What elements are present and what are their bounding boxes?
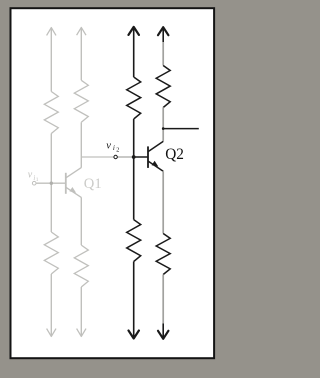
svg-text:2: 2 bbox=[116, 147, 119, 154]
wire (gray bias rail middle, Q1) bbox=[50, 134, 52, 233]
node (junction of output tap on collector rail of Q2) bbox=[162, 127, 165, 130]
terminal v_i2 (black input terminal circle) bbox=[114, 155, 117, 158]
svg-text:1: 1 bbox=[36, 177, 39, 183]
VEE arrow (black, bias rail of Q2) bbox=[129, 331, 139, 339]
resistor (black, lower bias resistor of Q2) bbox=[127, 220, 141, 262]
VCC arrow (black, collector rail of Q2) bbox=[158, 27, 168, 35]
resistor (black, collector resistor of Q2) bbox=[156, 66, 170, 108]
wire (gray, collector rail down to Q1 collector) bbox=[80, 122, 82, 167]
wire (medium gray emitter rail lower, Q2) bbox=[162, 275, 164, 324]
resistor (gray, upper bias resistor of Q1) bbox=[44, 92, 58, 134]
VCC arrow (gray, bias rail of Q1) bbox=[47, 28, 56, 36]
label v_i2 bbox=[106, 140, 119, 153]
label v_i1 bbox=[28, 170, 39, 184]
svg-text:v: v bbox=[28, 170, 33, 181]
wire (black bias rail middle, Q2) bbox=[133, 119, 135, 220]
svg-text:Q1: Q1 bbox=[84, 176, 102, 192]
VEE arrow (gray, bias rail of Q1) bbox=[47, 329, 56, 337]
VCC arrow (gray, collector rail of Q1) bbox=[77, 27, 86, 35]
wire (black shaft above VEE arrow, emitter rail of Q2) bbox=[162, 324, 164, 339]
VEE arrow (black, emitter rail of Q2) bbox=[158, 331, 168, 339]
wire (gray emitter rail, Q1) bbox=[80, 197, 82, 245]
node (gray junction dot, base of Q1 on bias rail) bbox=[50, 182, 53, 185]
wire (gray bias rail bottom, Q1) bbox=[50, 274, 52, 336]
wire (gray base wire of Q1) bbox=[36, 182, 66, 184]
wire (medium gray emitter rail, Q2) bbox=[162, 171, 164, 233]
wire (gray emitter rail bottom, Q1) bbox=[80, 287, 82, 336]
transistor Q2 (black NPN) bbox=[148, 141, 163, 171]
VEE arrow (gray, emitter rail of Q1) bbox=[77, 329, 86, 337]
resistor (gray, collector resistor of Q1) bbox=[74, 80, 88, 122]
terminal v_i1 (gray input terminal circle) bbox=[32, 181, 36, 185]
wire (gray collector output tap of Q1) bbox=[81, 156, 114, 158]
svg-text:Q2: Q2 bbox=[165, 146, 184, 163]
wire (black bias rail bottom, Q2) bbox=[133, 262, 135, 339]
wire (gray segment between v_i2 terminal and bias-rail junction) bbox=[117, 156, 133, 158]
wire (black bias rail top, Q2) bbox=[133, 27, 135, 77]
resistor (gray, emitter resistor of Q1) bbox=[74, 245, 88, 287]
wire (medium gray, collector rail from resistor down to Q2 collector) bbox=[162, 107, 164, 141]
wire (gray collector rail top, Q1) bbox=[80, 28, 82, 81]
wire (black base wire of Q2) bbox=[134, 156, 148, 158]
svg-text:v: v bbox=[106, 140, 111, 151]
wire (gray bias rail top, Q1) bbox=[50, 28, 52, 92]
wire (black shaft under VCC arrow, collector rail of Q2) bbox=[162, 27, 164, 42]
wire (medium gray segment, collector rail of Q2) bbox=[162, 42, 164, 66]
resistor (gray, lower bias resistor of Q1) bbox=[44, 232, 58, 274]
resistor (black, emitter resistor of Q2) bbox=[156, 234, 170, 275]
wire (black collector output tap of Q2) bbox=[162, 128, 199, 130]
transistor Q1 (gray NPN) bbox=[66, 168, 82, 198]
svg-text:i: i bbox=[113, 144, 115, 152]
resistor (black, upper bias resistor of Q2) bbox=[127, 77, 141, 119]
VCC arrow (black, bias rail of Q2) bbox=[129, 27, 139, 35]
node (black junction dot, base of Q2 on bias rail) bbox=[132, 155, 136, 159]
